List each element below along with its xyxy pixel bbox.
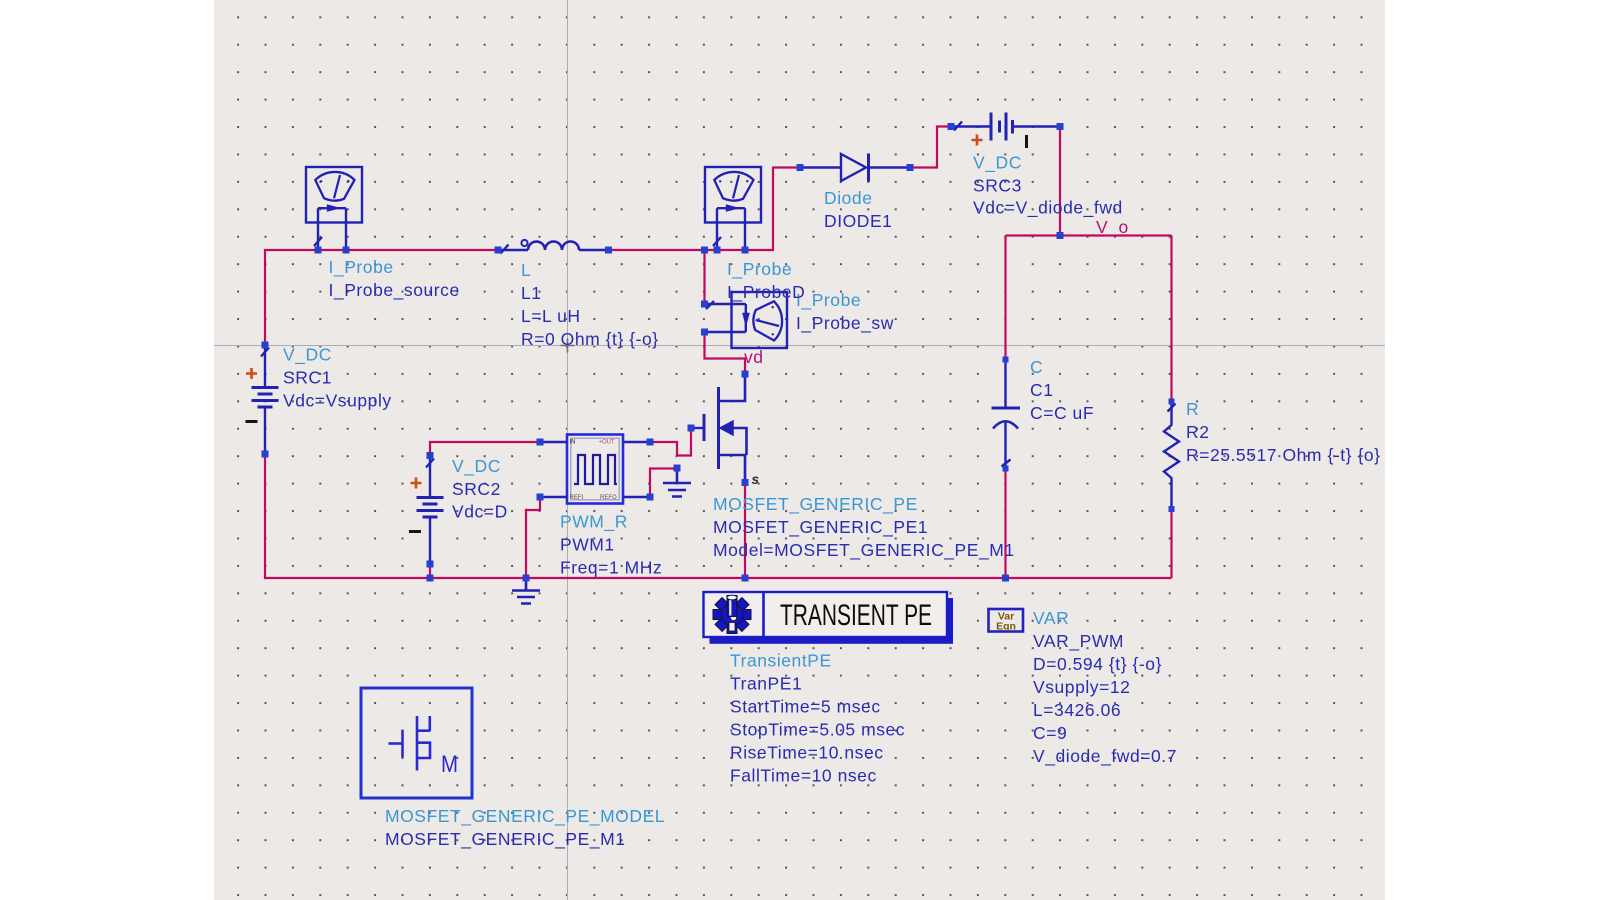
svg-text:V_o: V_o <box>1096 217 1129 238</box>
svg-text:RiseTime=10 nsec: RiseTime=10 nsec <box>730 743 884 763</box>
svg-text:I_ProbeD: I_ProbeD <box>727 282 805 303</box>
svg-text:L=3426.06: L=3426.06 <box>1033 700 1121 720</box>
svg-text:MOSFET_GENERIC_PE: MOSFET_GENERIC_PE <box>713 494 918 515</box>
svg-text:R=25.5517 Ohm {-t} {o}: R=25.5517 Ohm {-t} {o} <box>1186 445 1381 465</box>
svg-text:I_Probe: I_Probe <box>727 259 792 280</box>
svg-text:TranPE1: TranPE1 <box>730 674 802 694</box>
svg-text:VAR: VAR <box>1033 608 1069 628</box>
svg-text:Vsupply=12: Vsupply=12 <box>1033 677 1130 697</box>
svg-text:I_Probe_sw: I_Probe_sw <box>796 313 894 334</box>
svg-text:PWM1: PWM1 <box>560 535 615 555</box>
svg-text:L=L uH: L=L uH <box>521 306 581 326</box>
svg-text:MOSFET_GENERIC_PE1: MOSFET_GENERIC_PE1 <box>713 517 928 538</box>
svg-text:Vdc=D: Vdc=D <box>452 502 508 522</box>
svg-text:SRC3: SRC3 <box>973 176 1022 196</box>
svg-text:M: M <box>441 751 458 778</box>
svg-text:MOSFET_GENERIC_PE_M1: MOSFET_GENERIC_PE_M1 <box>385 829 626 850</box>
svg-text:Vdc=Vsupply: Vdc=Vsupply <box>283 391 392 411</box>
svg-text:I_Probe_source: I_Probe_source <box>329 280 460 301</box>
svg-text:PWM_R: PWM_R <box>560 512 628 533</box>
svg-text:+OUT: +OUT <box>599 440 616 446</box>
svg-text:s: s <box>752 472 760 487</box>
svg-text:V_diode_fwd=0.7: V_diode_fwd=0.7 <box>1033 746 1177 767</box>
svg-text:SRC1: SRC1 <box>283 368 332 388</box>
svg-text:Vdc=V_diode_fwd: Vdc=V_diode_fwd <box>973 198 1123 219</box>
svg-text:vd: vd <box>744 347 764 367</box>
svg-text:StartTime=5 msec: StartTime=5 msec <box>730 697 881 717</box>
svg-text:C=C uF: C=C uF <box>1030 403 1094 423</box>
svg-text:REFO: REFO <box>600 495 617 501</box>
svg-text:I_Probe: I_Probe <box>796 290 861 311</box>
svg-text:V_DC: V_DC <box>973 153 1022 174</box>
svg-text:TransientPE: TransientPE <box>730 651 832 671</box>
svg-text:FallTime=10 nsec: FallTime=10 nsec <box>730 766 877 786</box>
svg-text:L1: L1 <box>521 283 542 303</box>
svg-text:TRANSIENT PE: TRANSIENT PE <box>780 599 932 632</box>
svg-text:IN: IN <box>570 440 576 446</box>
svg-text:C1: C1 <box>1030 380 1053 400</box>
svg-text:REFI: REFI <box>570 495 584 501</box>
svg-text:MOSFET_GENERIC_PE_MODEL: MOSFET_GENERIC_PE_MODEL <box>385 806 665 827</box>
svg-text:R: R <box>1186 399 1199 419</box>
svg-text:V_DC: V_DC <box>452 456 501 477</box>
svg-text:DIODE1: DIODE1 <box>824 211 892 231</box>
svg-text:Model=MOSFET_GENERIC_PE_M1: Model=MOSFET_GENERIC_PE_M1 <box>713 540 1015 561</box>
svg-text:C: C <box>1030 357 1043 377</box>
svg-text:VAR_PWM: VAR_PWM <box>1033 631 1124 652</box>
svg-text:C=9: C=9 <box>1033 723 1067 743</box>
svg-text:L: L <box>521 260 531 280</box>
svg-text:R2: R2 <box>1186 422 1209 442</box>
svg-text:I_Probe: I_Probe <box>329 257 394 278</box>
svg-text:SRC2: SRC2 <box>452 479 501 499</box>
svg-text:StopTime=5.05 msec: StopTime=5.05 msec <box>730 720 905 740</box>
svg-text:Diode: Diode <box>824 188 872 208</box>
svg-text:D=0.594 {t} {-o}: D=0.594 {t} {-o} <box>1033 654 1162 674</box>
svg-text:Eqn: Eqn <box>996 621 1016 633</box>
svg-text:R=0 Ohm {t} {-o}: R=0 Ohm {t} {-o} <box>521 329 659 349</box>
svg-text:V_DC: V_DC <box>283 345 332 366</box>
svg-text:Freq=1 MHz: Freq=1 MHz <box>560 558 662 578</box>
